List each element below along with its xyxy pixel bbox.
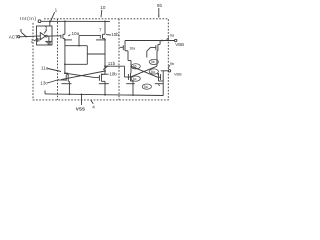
svg-text:Int(In): Int(In)	[20, 16, 37, 22]
svg-text:13c: 13c	[40, 81, 48, 86]
svg-text:11a: 11a	[41, 65, 49, 70]
svg-text:6a: 6a	[151, 70, 155, 74]
svg-text:VBB: VBB	[175, 42, 184, 47]
svg-text:10b: 10b	[109, 71, 117, 76]
svg-text:2: 2	[31, 38, 34, 43]
svg-text:3: 3	[45, 26, 48, 31]
svg-text:6c: 6c	[133, 77, 137, 81]
svg-text:7: 7	[99, 28, 102, 33]
svg-text:11b: 11b	[108, 61, 116, 66]
svg-text:VBB: VBB	[174, 73, 182, 77]
svg-text:5b: 5b	[151, 60, 155, 64]
svg-text:VSS: VSS	[76, 106, 85, 111]
svg-text:ACT: ACT	[9, 34, 18, 39]
svg-text:10a: 10a	[72, 31, 80, 36]
svg-text:4: 4	[92, 104, 95, 109]
svg-text:1: 1	[55, 8, 58, 13]
svg-text:9b: 9b	[157, 3, 163, 8]
svg-text:4: 4	[48, 41, 51, 46]
svg-text:6b: 6b	[133, 65, 137, 69]
svg-text:10: 10	[100, 5, 106, 10]
svg-text:5a: 5a	[144, 85, 148, 89]
svg-text:8: 8	[20, 28, 23, 33]
svg-text:9b: 9b	[170, 61, 175, 66]
svg-text:10b: 10b	[111, 32, 119, 37]
svg-text:9a: 9a	[170, 32, 175, 37]
svg-text:16a: 16a	[129, 46, 135, 50]
